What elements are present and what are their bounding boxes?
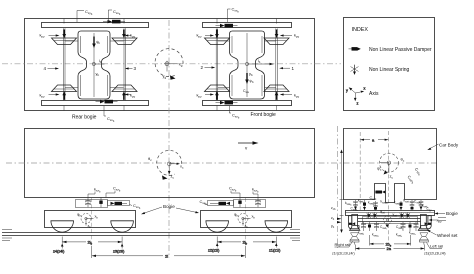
vehicle center vertical axis [168, 20, 170, 258]
front bogie rail bar top [203, 23, 292, 28]
z2 measurement [208, 243, 220, 253]
car body outline (plan view box) [25, 19, 315, 111]
svg-text:Non Linear Spring: Non Linear Spring [369, 67, 410, 73]
primary suspension labels [358, 225, 416, 238]
secondary suspension cluster left-mid [363, 200, 366, 211]
front bogie rail bar bottom [203, 101, 292, 106]
secondary suspension cluster left-outer [353, 200, 358, 211]
rear bogie center pivot [92, 33, 104, 97]
SIDEVIEW [6, 129, 437, 198]
label Left rail [427, 243, 444, 249]
svg-text:z1l(z2l,z3l,z4l): z1l(z2l,z3l,z4l) [424, 252, 445, 256]
svg-text:y: y [346, 89, 348, 93]
bogie frame bar (end view) [346, 211, 435, 216]
label Right rail [335, 241, 353, 247]
left vertical dimension line [340, 150, 344, 234]
bogie left arm [349, 216, 360, 229]
z1 measurement [269, 243, 281, 253]
axle number labels [44, 65, 295, 71]
rear bogie wheel 3 [111, 221, 134, 232]
left margin labels [331, 206, 336, 229]
primary spring X glyph right (black) [400, 212, 411, 219]
primary suspension cluster right [401, 222, 419, 231]
longitudinal centerline [2, 63, 341, 65]
axle level marks [438, 218, 446, 221]
rear bogie rail bar bottom [42, 101, 149, 106]
secondary yaw damper rear top (black) [103, 20, 125, 24]
right wheel [418, 215, 428, 231]
svg-text:2a: 2a [387, 246, 392, 251]
rear bogie damper glyph in frame [92, 37, 100, 49]
right rail symbol [419, 233, 428, 245]
bogie right arm [421, 216, 432, 229]
svg-text:Car Body: Car Body [439, 143, 459, 148]
rail end marks right [290, 230, 300, 241]
velocity arrow v [238, 141, 259, 150]
primary suspension cluster left [361, 222, 379, 231]
z4 measurement [53, 244, 65, 254]
svg-text:Left rail: Left rail [430, 244, 443, 249]
label Car Body with leader [427, 143, 459, 151]
car body pitch symbol (side view) [148, 150, 184, 179]
BOTTOMLEFT [2, 198, 300, 259]
label Bogie (center, two leaders) [141, 204, 199, 214]
label k_py with leader [429, 218, 443, 224]
side view centerline [6, 162, 437, 164]
rear bogie frame (side view) [45, 211, 136, 228]
svg-text:z3(z3l): z3(z3l) [113, 250, 125, 254]
k_py glyph left (black arrow) [349, 222, 355, 225]
front bogie center pivot [245, 33, 273, 97]
dimension 2l_b front [217, 237, 276, 246]
C_swt damper in notch [370, 191, 386, 202]
label Csx_b front top [228, 7, 240, 23]
rear secondary damper glyph [99, 198, 102, 208]
svg-text:z2(z2l): z2(z2l) [208, 249, 220, 253]
rear lateral damper (black) [111, 202, 128, 205]
rear lateral damper box [108, 201, 130, 206]
svg-text:Non Linear Passive Damper: Non Linear Passive Damper [369, 47, 432, 53]
svg-text:z: z [357, 102, 359, 106]
axle bridge [363, 217, 418, 224]
z3 measurement [113, 244, 125, 254]
label C_sz_b front [229, 186, 240, 198]
wheelset axle [358, 218, 421, 220]
rear bogie frame (bone) [78, 31, 110, 99]
label k_sz_b front [252, 187, 259, 198]
secondary suspension cluster right-outer [419, 200, 424, 211]
wheelset 3 wheels [112, 38, 137, 45]
wheelset axle tick segments [64, 19, 277, 111]
svg-text:2l: 2l [165, 254, 168, 259]
wheelset 4 axle [63, 28, 65, 100]
svg-text:Bogie: Bogie [163, 204, 175, 209]
svg-text:INDEX: INDEX [352, 27, 369, 33]
label Csx_b rear top [108, 9, 121, 22]
LEGEND [344, 18, 435, 111]
dimension a [360, 137, 388, 142]
svg-text:Bogie: Bogie [446, 211, 458, 216]
svg-text:Front bogie: Front bogie [251, 112, 277, 118]
secondary yaw damper front bottom (black) [216, 101, 238, 105]
rail (side view) bottom line [2, 235, 300, 237]
front bogie pitch symbol [234, 213, 255, 230]
wheelset 3 axle [123, 28, 125, 100]
front bogie frame (side view) [201, 211, 292, 228]
rail (side view) top line [2, 232, 300, 234]
legend damper icon [349, 47, 361, 51]
label Bogie with leader [435, 211, 459, 216]
wheelset 2 axle [215, 29, 217, 101]
rear bogie bolster [76, 200, 108, 208]
car body outline (side view box) [25, 129, 315, 198]
secondary yaw damper front top (black) [216, 24, 238, 28]
dimension 2l overall [92, 246, 246, 259]
wheel cap lines [54, 41, 288, 90]
legend spring icon [351, 65, 359, 75]
end view center axis [387, 131, 389, 244]
dimension 2b_s [370, 235, 411, 248]
front bogie: label C_sx_b lateral [200, 199, 208, 206]
svg-text:Axis: Axis [369, 91, 379, 97]
bogie bar inner line [346, 212, 435, 214]
svg-text:Right rail: Right rail [335, 242, 351, 247]
front bogie wheel 2 [206, 221, 229, 232]
front secondary spring glyph [255, 198, 261, 208]
svg-text:Rear bogie: Rear bogie [72, 115, 97, 121]
rear secondary spring glyph 1 [85, 198, 91, 208]
wheelset 1 axle [275, 29, 277, 101]
left wheel [350, 215, 360, 231]
dimension 2a [356, 245, 425, 252]
rear bogie pitch symbol [77, 213, 98, 230]
car body yaw symbol (top view center) [155, 49, 183, 80]
label C_sx_b rear lateral [130, 203, 141, 210]
label Csx_b front bottom [229, 106, 240, 120]
svg-text:z1r(z2r,z3r,z4r): z1r(z2r,z3r,z4r) [332, 252, 355, 256]
rear bogie rail bar top [42, 23, 149, 28]
secondary suspension cluster left-inner [373, 201, 378, 211]
svg-text:Wheel set: Wheel set [437, 233, 458, 238]
wheelset 2 wheels [205, 38, 230, 45]
label k_sz_b rear [88, 187, 101, 198]
front bogie frame (bone) [230, 31, 265, 99]
front bogie bolster [234, 200, 266, 208]
rear bogie wheel 4 [51, 221, 74, 232]
front lateral damper box [208, 201, 234, 206]
end view vertical axis left [337, 126, 339, 248]
primary spring X glyph left (black) [367, 212, 378, 219]
label Wheel set with leader [427, 230, 459, 238]
primary spring glyphs at wheels (black arrows) [62, 30, 278, 100]
wheelset roll symbol [380, 210, 397, 228]
svg-text:x: x [364, 87, 366, 91]
rear bogie center axis [91, 198, 93, 246]
frame-to-axle links [65, 41, 276, 88]
label Csy_b rear [77, 9, 93, 22]
secondary suspension tiny labels [345, 199, 432, 212]
car body roll symbol (end view) [377, 153, 405, 179]
front bogie damper glyph in frame [243, 73, 254, 94]
secondary suspension cluster right-inner [400, 201, 403, 211]
dimension 2l_b rear [62, 237, 122, 246]
svg-text:z4(z4l): z4(z4l) [53, 250, 65, 254]
front bogie center axis [244, 198, 246, 246]
wheelset 1 wheels [264, 38, 289, 45]
TOPVIEW [2, 7, 341, 259]
k_py labels and arrows (rear) [40, 33, 300, 99]
secondary suspension cluster right-mid [410, 200, 415, 211]
left rail symbol [350, 233, 359, 245]
k_py glyph right (black arrow) [425, 222, 431, 225]
wheelset 4 wheels [52, 38, 77, 45]
label C_sz_b rear [106, 186, 121, 198]
ENDVIEW [331, 126, 459, 256]
secondary yaw damper rear bottom (black) [96, 100, 118, 104]
legend axis icon [346, 87, 366, 106]
index legend box [344, 18, 435, 111]
front lateral damper (black) [210, 202, 230, 205]
left margin black arrows [337, 218, 342, 224]
label Csx_b rear bottom [104, 106, 115, 123]
svg-text:z1(z1l): z1(z1l) [269, 249, 281, 253]
front bogie wheel 1 [265, 221, 288, 232]
car body outline (end view) [344, 129, 437, 203]
rail end marks left [2, 230, 12, 241]
end view dashed axis a-left [359, 132, 361, 210]
front secondary damper glyph [238, 198, 241, 208]
